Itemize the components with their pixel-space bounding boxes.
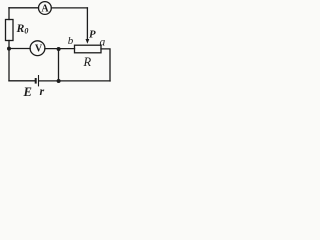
svg-text:P: P: [89, 29, 96, 41]
wire top horizontal left of ammeter: [9, 7, 39, 9]
wire top horizontal right of ammeter: [51, 7, 87, 9]
wire bottom left of battery: [9, 80, 35, 82]
wire bottom right of battery: [39, 80, 110, 82]
svg-text:R: R: [83, 55, 92, 69]
wire rheostat right to corner: [101, 49, 110, 81]
resistor R0: [6, 20, 14, 41]
battery E short thick plate: [35, 78, 37, 84]
ammeter A: [39, 2, 52, 15]
svg-text:a: a: [100, 37, 106, 49]
node left junction: [7, 47, 11, 51]
svg-text:r: r: [40, 84, 45, 98]
battery E long plate: [38, 75, 40, 86]
wire left vertical below R0: [8, 41, 10, 81]
node middle junction: [57, 47, 61, 51]
svg-text:b: b: [68, 35, 74, 47]
wire voltmeter left: [9, 48, 30, 50]
svg-text:V: V: [35, 44, 43, 55]
rheostat R: [75, 45, 102, 53]
wire voltmeter right: [45, 48, 75, 50]
voltmeter V: [30, 41, 45, 56]
wire right-top vertical down to slider: [86, 8, 88, 40]
wire middle vertical: [58, 49, 60, 81]
svg-text:E: E: [23, 85, 32, 98]
slider P arrow: [86, 39, 90, 44]
svg-text:R0: R0: [16, 21, 29, 36]
svg-text:A: A: [41, 3, 49, 14]
node bottom junction: [57, 79, 61, 83]
wire top-left vertical: [8, 8, 10, 20]
